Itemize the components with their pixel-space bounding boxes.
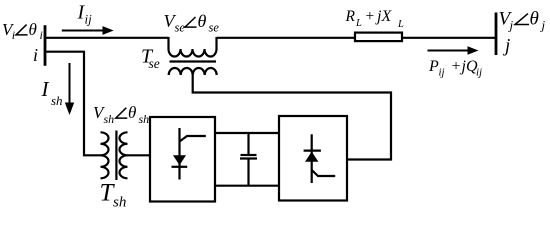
label T_sh bbox=[100, 180, 127, 211]
converter 2 box bbox=[279, 116, 347, 201]
svg-text:sh: sh bbox=[104, 112, 115, 126]
transformer T_sh primary winding bbox=[101, 132, 109, 178]
converter 2 thyristor bbox=[304, 134, 336, 183]
svg-text:θ: θ bbox=[530, 8, 539, 29]
converter 1 thyristor bbox=[172, 128, 206, 180]
label T_se bbox=[141, 45, 160, 71]
svg-text:θ: θ bbox=[29, 20, 37, 39]
svg-text:ij: ij bbox=[439, 67, 445, 79]
transformer T_se secondary winding bbox=[169, 68, 217, 75]
wire resistor to bus j bbox=[402, 37, 495, 39]
svg-text:ij: ij bbox=[476, 67, 482, 79]
label V_i angle theta_i bbox=[2, 20, 43, 42]
svg-text:j: j bbox=[502, 36, 510, 57]
svg-text:P: P bbox=[428, 58, 439, 75]
svg-text:sh: sh bbox=[113, 195, 126, 210]
svg-text:i: i bbox=[12, 28, 15, 42]
dc capacitor bbox=[240, 133, 257, 186]
svg-text:+: + bbox=[365, 8, 375, 25]
svg-text:θ: θ bbox=[198, 11, 207, 31]
transformer T_se primary winding bbox=[169, 37, 217, 57]
svg-text:R: R bbox=[345, 8, 356, 25]
bus i bbox=[44, 25, 47, 66]
svg-text:θ: θ bbox=[128, 103, 136, 122]
wire T_se to resistor bbox=[217, 37, 356, 39]
wire T_se secondary to converter 2 bbox=[193, 75, 391, 160]
svg-text:se: se bbox=[209, 21, 220, 35]
resistor R_L+jX_L bbox=[355, 33, 402, 42]
dc link bottom wire bbox=[215, 185, 279, 187]
transformer T_se core bbox=[170, 60, 217, 62]
label V_sh angle theta_sh bbox=[93, 103, 149, 126]
power flow arrow P_ij+jQ_ij bbox=[428, 46, 479, 54]
svg-text:I: I bbox=[41, 77, 50, 101]
current arrow I_sh bbox=[65, 63, 74, 115]
svg-text:j: j bbox=[540, 18, 546, 33]
transformer T_sh secondary winding bbox=[120, 132, 128, 178]
transformer T_sh core bbox=[115, 131, 117, 181]
svg-text:se: se bbox=[149, 56, 160, 71]
svg-text:ij: ij bbox=[85, 12, 93, 27]
svg-text:L: L bbox=[397, 19, 404, 30]
svg-text:jX: jX bbox=[375, 8, 392, 25]
label V_j angle theta_j bbox=[499, 8, 546, 32]
dc link top wire bbox=[215, 132, 279, 134]
label V_se angle theta_se bbox=[164, 11, 220, 35]
wire shunt tap bbox=[44, 52, 101, 156]
current arrow I_ij bbox=[62, 26, 114, 35]
wire bus i to T_se bbox=[44, 37, 169, 39]
label R_L+jX_L bbox=[345, 8, 405, 30]
svg-text:i: i bbox=[33, 45, 38, 65]
svg-text:L: L bbox=[355, 18, 362, 29]
svg-text:sh: sh bbox=[51, 93, 63, 108]
label I_sh bbox=[41, 77, 63, 108]
svg-text:sh: sh bbox=[139, 112, 150, 126]
svg-text:+: + bbox=[451, 58, 462, 75]
label P_ij+jQ_ij bbox=[428, 58, 482, 79]
svg-text:i: i bbox=[40, 28, 43, 42]
bus j bbox=[495, 13, 498, 56]
label I_ij bbox=[77, 1, 93, 26]
converter 1 box bbox=[150, 117, 215, 202]
wire T_sh to converter 1 bbox=[128, 154, 151, 156]
